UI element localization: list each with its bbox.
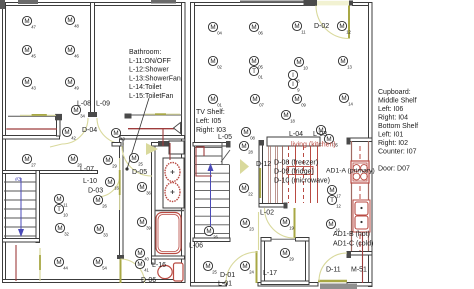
svg-text:I: I	[292, 72, 294, 79]
svg-text:AD1-B (hot): AD1-B (hot)	[333, 231, 370, 238]
svg-text:Left: I05: Left: I05	[196, 118, 221, 125]
svg-text:08: 08	[250, 135, 255, 140]
svg-text:T: T	[57, 206, 61, 213]
svg-text:M: M	[96, 226, 101, 233]
svg-text:M: M	[131, 155, 136, 162]
svg-text:M: M	[70, 156, 75, 163]
svg-text:M: M	[56, 259, 61, 266]
svg-text:D-01: D-01	[220, 272, 235, 279]
svg-text:M: M	[341, 95, 346, 102]
svg-text:29: 29	[112, 163, 117, 168]
svg-text:#3: #3	[15, 177, 21, 183]
svg-text:I: I	[292, 81, 294, 88]
svg-text:45: 45	[31, 53, 36, 58]
svg-text:10: 10	[303, 65, 308, 70]
svg-text:13: 13	[347, 64, 352, 69]
svg-text:M: M	[328, 221, 333, 228]
svg-text:L-09: L-09	[96, 101, 110, 108]
svg-text:M: M	[241, 185, 246, 192]
svg-text:L-13:ShowerFan: L-13:ShowerFan	[129, 75, 181, 82]
svg-text:TV Shelf:: TV Shelf:	[196, 109, 225, 116]
svg-text:01: 01	[217, 102, 222, 107]
svg-text:27: 27	[31, 162, 36, 167]
svg-text:M: M	[139, 219, 144, 226]
svg-text:44: 44	[63, 265, 68, 270]
svg-text:M: M	[241, 143, 246, 150]
svg-text:M: M	[340, 58, 345, 65]
svg-text:42: 42	[71, 135, 76, 140]
svg-text:living (kitchen): living (kitchen)	[291, 142, 336, 149]
svg-text:40: 40	[144, 256, 149, 261]
svg-text:M: M	[242, 220, 247, 227]
svg-text:L-14:Toilet: L-14:Toilet	[129, 84, 161, 91]
svg-text:M: M	[243, 129, 248, 136]
svg-text:Right: I04: Right: I04	[378, 114, 408, 121]
svg-text:L-02: L-02	[260, 210, 274, 217]
svg-text:T: T	[252, 68, 256, 75]
svg-text:M: M	[339, 23, 344, 30]
svg-text:34: 34	[80, 113, 85, 118]
svg-text:Bathroom:: Bathroom:	[129, 49, 161, 56]
svg-text:M: M	[296, 59, 301, 66]
svg-text:M: M	[57, 225, 62, 232]
svg-text:19: 19	[289, 225, 294, 230]
svg-text:48: 48	[74, 23, 79, 28]
svg-text:Bottom Shelf: Bottom Shelf	[378, 123, 418, 130]
svg-text:D-12: D-12	[256, 161, 271, 168]
svg-text:D-02: D-02	[314, 23, 329, 30]
svg-text:47: 47	[31, 24, 36, 29]
svg-text:L-03: L-03	[313, 131, 327, 138]
svg-text:M: M	[24, 18, 29, 25]
svg-text:M-51: M-51	[351, 267, 367, 274]
svg-text:28: 28	[248, 149, 253, 154]
svg-text:11: 11	[63, 202, 68, 207]
svg-text:M: M	[56, 196, 61, 203]
svg-text:M: M	[113, 130, 118, 137]
svg-text:M: M	[294, 96, 299, 103]
svg-text:M: M	[252, 96, 257, 103]
svg-text:M: M	[24, 47, 29, 54]
svg-text:Door: D07: Door: D07	[378, 166, 410, 173]
svg-text:M: M	[107, 179, 112, 186]
svg-text:M: M	[283, 112, 288, 119]
svg-text:02: 02	[217, 64, 222, 69]
svg-text:9: 9	[297, 87, 300, 92]
svg-text:M: M	[137, 261, 142, 268]
svg-text:M: M	[329, 187, 334, 194]
svg-text:49: 49	[74, 85, 79, 90]
svg-text:L-07: L-07	[80, 166, 94, 173]
svg-text:14: 14	[348, 101, 353, 106]
svg-text:D-11: D-11	[326, 267, 341, 274]
svg-text:L-01: L-01	[218, 281, 232, 288]
svg-text:05: 05	[258, 64, 263, 69]
svg-text:M: M	[67, 47, 72, 54]
svg-text:24: 24	[249, 269, 254, 274]
svg-text:L-05: L-05	[218, 134, 232, 141]
svg-text:33: 33	[103, 232, 108, 237]
svg-text:M: M	[73, 107, 78, 114]
svg-text:43: 43	[120, 136, 125, 141]
svg-text:L-16: L-16	[152, 262, 166, 269]
svg-text:17: 17	[336, 193, 341, 198]
svg-text:25: 25	[212, 269, 217, 274]
svg-text:26: 26	[213, 234, 218, 239]
svg-text:L-17: L-17	[263, 270, 277, 277]
svg-text:M: M	[282, 219, 287, 226]
svg-text:M: M	[95, 197, 100, 204]
svg-text:T: T	[330, 197, 334, 204]
svg-text:36: 36	[146, 190, 151, 195]
svg-text:23: 23	[249, 226, 254, 231]
svg-text:M: M	[24, 156, 29, 163]
svg-text:18: 18	[290, 118, 295, 123]
svg-text:11: 11	[301, 29, 306, 34]
svg-text:L-08: L-08	[77, 101, 91, 108]
svg-text:16: 16	[114, 185, 119, 190]
svg-text:06: 06	[258, 30, 263, 35]
svg-text:Cupboard:: Cupboard:	[378, 89, 411, 96]
svg-text:43: 43	[31, 85, 36, 90]
svg-text:Middle Shelf: Middle Shelf	[378, 97, 417, 104]
svg-text:Right: I02: Right: I02	[378, 140, 408, 147]
svg-text:M: M	[210, 58, 215, 65]
svg-text:M: M	[294, 23, 299, 30]
svg-text:Right: I03: Right: I03	[196, 127, 226, 134]
svg-text:M: M	[251, 58, 256, 65]
svg-text:M: M	[137, 250, 142, 257]
svg-text:M: M	[64, 129, 69, 136]
svg-text:D-03: D-03	[88, 188, 103, 195]
svg-text:39: 39	[146, 225, 151, 230]
svg-text:10: 10	[63, 212, 68, 217]
svg-text:26: 26	[102, 203, 107, 208]
svg-text:29: 29	[289, 256, 294, 261]
svg-text:M: M	[67, 17, 72, 24]
svg-text:L-11:ON/OFF: L-11:ON/OFF	[129, 58, 171, 65]
svg-text:M: M	[95, 259, 100, 266]
svg-text:M: M	[139, 184, 144, 191]
svg-text:01: 01	[258, 74, 263, 79]
svg-text:M: M	[206, 228, 211, 235]
svg-text:12: 12	[336, 203, 341, 208]
svg-text:M: M	[210, 24, 215, 31]
svg-text:D-05: D-05	[132, 169, 147, 176]
svg-text:D-04: D-04	[82, 127, 97, 134]
svg-text:AD1-A (primary): AD1-A (primary)	[326, 168, 375, 175]
svg-text:46: 46	[74, 53, 79, 58]
svg-text:07: 07	[259, 102, 264, 107]
svg-text:M: M	[210, 96, 215, 103]
svg-text:L-12:Shower: L-12:Shower	[129, 67, 169, 74]
svg-text:M: M	[24, 79, 29, 86]
svg-text:M: M	[251, 24, 256, 31]
svg-text:12: 12	[346, 29, 351, 34]
svg-text:Left: I01: Left: I01	[378, 132, 403, 139]
svg-text:D-06: D-06	[141, 277, 156, 284]
svg-text:M: M	[205, 263, 210, 270]
svg-text:D-08 (freezer): D-08 (freezer)	[274, 159, 318, 167]
svg-text:M: M	[242, 263, 247, 270]
svg-text:54: 54	[102, 265, 107, 270]
svg-text:41: 41	[144, 267, 149, 272]
svg-text:M: M	[282, 250, 287, 257]
svg-text:D-10 (microwave): D-10 (microwave)	[274, 177, 330, 185]
svg-text:AD1-C (cold): AD1-C (cold)	[333, 241, 373, 248]
svg-text:04: 04	[217, 30, 222, 35]
svg-text:22: 22	[248, 191, 253, 196]
svg-text:M: M	[67, 79, 72, 86]
svg-text:L-06: L-06	[189, 243, 203, 250]
svg-text:L-15:ToiletFan: L-15:ToiletFan	[129, 93, 173, 100]
svg-text:L-04: L-04	[289, 131, 303, 138]
svg-text:Left: I06: Left: I06	[378, 106, 403, 113]
svg-text:09: 09	[301, 102, 306, 107]
svg-text:Counter: I07: Counter: I07	[378, 149, 417, 156]
svg-text:L-10: L-10	[83, 178, 97, 185]
svg-text:M: M	[105, 157, 110, 164]
svg-text:25: 25	[138, 161, 143, 166]
svg-text:32: 32	[64, 231, 69, 236]
svg-text:D-09 (fridge): D-09 (fridge)	[274, 168, 314, 176]
